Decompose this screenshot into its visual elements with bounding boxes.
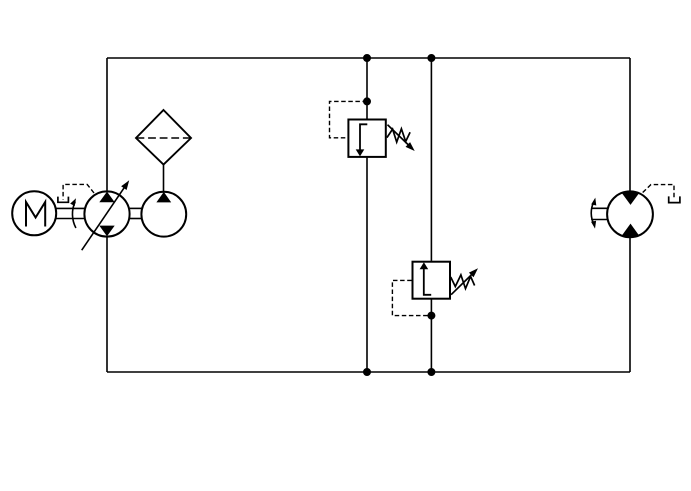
pressure relief valve V1 body <box>348 120 385 157</box>
wire left bus lower segment <box>106 236 108 372</box>
hydraulic motor HM1 <box>607 191 653 237</box>
motor case drain line (dashed) <box>643 185 674 200</box>
bidirectional rotation arrow <box>591 197 598 229</box>
pump case drain pilot line (dashed) <box>63 184 94 199</box>
rotation direction arrow <box>70 197 78 228</box>
junction node top bus / valve2 branch <box>428 55 434 61</box>
wire left bus upper segment <box>106 58 108 192</box>
valve V2 flow arrow <box>420 262 432 295</box>
wire right bus lower segment <box>629 236 631 372</box>
variable displacement pump P1 <box>84 191 129 236</box>
valve V2 pilot line (dashed) <box>392 280 431 315</box>
wire sequence-valve branch lower segment <box>430 300 432 373</box>
electric motor M <box>12 191 56 235</box>
junction node bottom bus / valve2 branch <box>428 369 434 375</box>
wire bottom bus <box>107 371 630 373</box>
wire relief-valve branch lower segment <box>366 158 368 372</box>
junction node bottom bus / valve1 branch <box>364 369 370 375</box>
shaft coupling pump-to-auxiliary-pump <box>130 208 142 218</box>
wire sequence-valve branch upper segment <box>430 58 432 261</box>
valve V2 adjustable spring <box>451 266 481 295</box>
tank symbol at pump drain <box>58 197 69 203</box>
auxiliary fixed pump P2 <box>141 192 186 237</box>
junction node valve1 pilot tap <box>364 98 370 104</box>
wire right bus upper segment <box>629 58 631 193</box>
variable displacement adjustment arrow <box>82 178 132 250</box>
valve V1 pilot line (dashed) <box>330 101 368 137</box>
wire relief-valve branch upper segment <box>366 58 368 119</box>
junction node top bus / valve1 branch <box>364 55 370 61</box>
hydraulic motor output shaft <box>591 208 607 219</box>
shaft coupling motor-to-pump <box>56 208 84 218</box>
wire filter-to-pump2 <box>163 165 165 192</box>
pressure sequence valve V2 body <box>413 262 451 299</box>
valve V1 flow arrow <box>356 124 368 156</box>
junction node valve2 pilot tap <box>428 312 434 318</box>
wire top bus <box>107 57 630 59</box>
tank symbol at motor drain <box>669 196 680 202</box>
filter F1 <box>136 110 191 165</box>
valve V1 adjustable spring <box>387 125 417 154</box>
